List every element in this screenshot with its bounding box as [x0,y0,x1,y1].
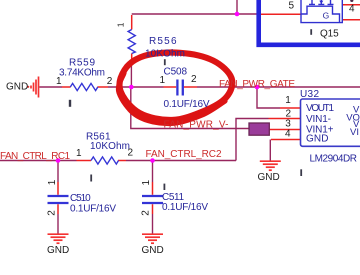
svg-text:G: G [323,11,330,21]
svg-text:VIN1-: VIN1- [306,114,331,125]
svg-text:FAN_CTRL_RC1: FAN_CTRL_RC1 [0,151,70,162]
svg-text:2: 2 [141,210,152,216]
svg-text:2: 2 [107,76,113,87]
svg-text:GND: GND [47,245,69,256]
svg-text:GND: GND [6,82,28,93]
svg-text:1: 1 [116,22,126,27]
svg-text:C508: C508 [164,67,188,78]
svg-text:GND: GND [142,245,164,256]
svg-text:GND: GND [306,134,329,145]
svg-text:VI: VI [350,127,359,138]
svg-text:1: 1 [160,75,166,86]
svg-text:GND: GND [258,172,280,183]
svg-text:2: 2 [47,210,58,216]
svg-text:Q15: Q15 [320,29,339,40]
svg-text:2: 2 [128,148,134,159]
svg-text:5: 5 [289,1,295,12]
svg-text:4: 4 [285,129,291,140]
svg-text:LM2904DR: LM2904DR [310,153,358,164]
svg-text:0.1UF/16V: 0.1UF/16V [162,202,208,213]
svg-text:10KOhm: 10KOhm [90,141,130,152]
svg-text:1: 1 [141,180,152,186]
svg-text:3.74KOhm: 3.74KOhm [59,67,105,78]
svg-text:0.1UF/16V: 0.1UF/16V [70,204,116,215]
svg-text:VOUT1: VOUT1 [306,103,334,114]
svg-text:R556: R556 [149,36,177,47]
svg-text:FAN_PWR_V-: FAN_PWR_V- [164,119,229,130]
svg-text:2: 2 [191,74,197,85]
svg-text:U32: U32 [300,89,319,100]
svg-text:0.1UF/16V: 0.1UF/16V [164,99,210,110]
svg-text:1: 1 [285,95,291,106]
svg-text:4: 4 [349,4,355,15]
svg-text:1: 1 [76,148,82,159]
svg-text:10KOhm: 10KOhm [145,49,185,60]
svg-text:1: 1 [47,179,58,185]
svg-text:FAN_CTRL_RC2: FAN_CTRL_RC2 [146,149,222,160]
svg-text:1: 1 [56,76,62,87]
svg-text:FAN_PWR_GATE: FAN_PWR_GATE [219,79,295,90]
